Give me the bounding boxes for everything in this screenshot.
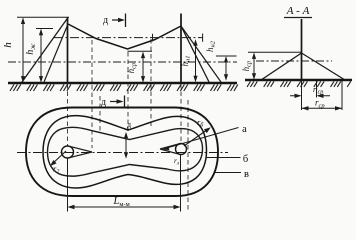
projection line x=92 (dashed) [91,40,93,148]
svg-text:rб: rб [197,117,204,129]
plan centre line (dash-dot) [17,152,228,154]
right down-lead wire [181,26,221,82]
projection of mast M1 into plan (dashed) [67,84,69,146]
svg-text:rл: rл [174,156,180,167]
dimension h_m: extension line [36,28,53,30]
svg-text:hн2: hн2 [205,40,217,52]
mast M2 circle (plan) [176,144,187,155]
projection line x=188 (dashed) [187,100,189,210]
mast M1 (left) [67,18,69,84]
svg-text:д: д [103,15,108,26]
axis line (dash-dot, lower, elevation) [8,61,237,63]
dimension r_sr (A-A) [302,107,343,109]
dimension h_m: vertical dimension line with arrows [40,30,42,82]
svg-text:Lм-м: Lм-м [113,196,130,208]
svg-text:r,ср: r,ср [313,85,323,96]
extension line below ground at mast (A-A) [301,81,303,110]
tick on mean-height line (left) [152,34,154,42]
dimension h_sr (A-A): extension line [248,51,301,53]
ground line (elevation) [8,82,237,84]
antenna wire (sagging span between masts) [68,24,181,49]
leader line a [165,128,239,149]
dimension h: extension line at mast1 top [17,16,69,18]
dimension h_sr: extension line at wire low point [128,50,153,52]
left sloping wire (A-A) [261,53,302,80]
dimension h_i2: vertical dimension line with arrows [225,57,227,80]
contour b (anchor-stake contour, pinched oval) [43,116,207,188]
right counterpoise teardrop [160,144,180,155]
projection line x=100 (dashed) [99,96,101,132]
contour v (outer site boundary) [26,108,218,197]
svg-text:r2: r2 [53,164,59,176]
contour a (antenna web outline, bow-tie) [48,127,203,176]
svg-text:в: в [244,169,249,180]
extension line below ground x=342 (A-A) [341,81,343,110]
dimension h_sr: vertical dimension line with arrows [142,53,144,82]
ground hatching (elevation) [10,84,238,91]
centre gap dimension (small, vertical) [125,133,127,158]
svg-text:А - А: А - А [286,5,310,17]
svg-text:а: а [242,124,247,135]
projection of mast M2 into plan (dashed) [180,84,182,144]
mean-height line (dash-dot, upper, elevation) [54,37,203,39]
mast (section A-A) [301,19,303,80]
tick on mean-height line (right) [202,34,204,42]
axis line (dash-dot, A-A) [256,60,332,62]
svg-text:h: h [2,42,14,48]
svg-text:б: б [243,154,248,165]
dimension h: vertical dimension line with arrows [22,18,24,81]
dimension L_m-m: horizontal dimension line [69,206,180,208]
leader line b [206,157,241,159]
svg-text:д: д [127,120,131,129]
svg-text:rср: rср [315,98,325,110]
mast M1 circle (plan) [62,146,74,158]
leader line v [214,172,241,174]
dimension h_i2: extension line [216,55,237,57]
projection line x=128 (dashed) [127,52,129,131]
ground line (A-A) [245,79,352,81]
extension line below ground x=316.5 (A-A) [316,81,318,98]
ground hatching (A-A) [247,81,351,87]
mast M2 (right) [180,14,182,84]
radius arrow r2 [52,151,67,165]
left counterpoise teardrop [70,146,93,157]
right guy wire from mast top [181,26,209,82]
svg-text:д: д [101,97,106,108]
right sloping wire (A-A) [302,53,346,80]
dimension L_m-m: extension line left [67,159,69,212]
projection line x=151 (dashed) [150,39,152,129]
dimension h_sr (A-A): vertical dimension line [253,53,255,78]
left guy wire [22,18,68,83]
dimension r'_sr (small radius, outside arrows) [290,95,330,97]
dimension h_i1: vertical dimension line with arrows [195,41,197,82]
svg-text:hж: hж [25,43,37,55]
left down-lead wire [44,24,68,82]
radius arrow r1 [184,129,209,147]
dimension L_m-m: extension line right [180,155,182,212]
svg-text:hср: hср [241,60,253,71]
